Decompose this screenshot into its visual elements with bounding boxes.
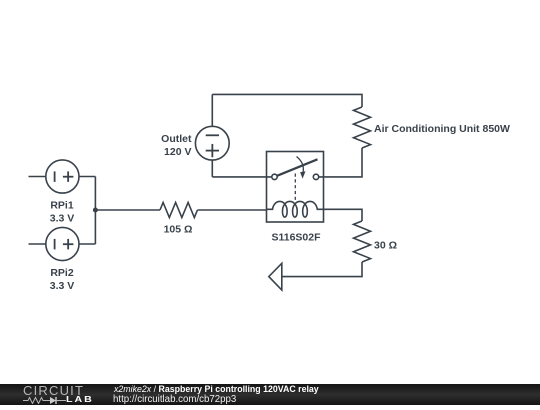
wire junction to resistor R105 (95, 209, 160, 211)
voltage source Outlet 120V (195, 94, 229, 176)
wire outlet bottom to relay switch left (212, 176, 271, 178)
antenna flag terminal (269, 263, 282, 290)
svg-text:Outlet: Outlet (161, 133, 192, 145)
wire 30 ohm resistor to antenna flag (282, 262, 362, 277)
svg-text:RPi2: RPi2 (50, 267, 74, 279)
CircuitLab logo LAB (66, 395, 94, 403)
relay U1 box (267, 152, 324, 223)
CircuitLab logo CIRCUIT (23, 384, 84, 397)
relay switch lever (277, 159, 318, 176)
wire AC resistor to relay switch right (319, 148, 362, 177)
svg-text:RPi1: RPi1 (50, 200, 74, 212)
credit line (114, 385, 319, 394)
CircuitLab logo resistor-diode glyph (23, 396, 67, 404)
node junction dot (93, 208, 98, 213)
url line (113, 395, 236, 404)
svg-text:Air Conditioning Unit 850W: Air Conditioning Unit 850W (374, 123, 510, 135)
svg-text:3.3 V: 3.3 V (50, 280, 75, 292)
wire relay coil right to 30 ohm resistor (324, 209, 362, 221)
svg-text:S116S02F: S116S02F (271, 232, 321, 244)
resistor Air Conditioning Unit 850W (354, 107, 371, 148)
resistor 30 ohm (354, 221, 371, 262)
relay switch left terminal (272, 174, 277, 179)
svg-text:120 V: 120 V (164, 146, 191, 158)
svg-text:3.3 V: 3.3 V (50, 213, 75, 225)
relay switch right terminal (313, 174, 318, 179)
wire resistor to relay coil (198, 209, 267, 211)
relay coil (267, 201, 325, 217)
wire joining RPi1 and RPi2 outputs (94, 177, 96, 245)
voltage source RPi2 (29, 227, 96, 260)
relay actuation dashed link (294, 174, 296, 201)
svg-text:30 Ω: 30 Ω (374, 240, 397, 252)
wire outlet top to AC resistor (212, 94, 362, 107)
resistor 105 ohm (160, 203, 197, 218)
footer bar (0, 384, 540, 405)
voltage source RPi1 (29, 160, 96, 193)
svg-text:105 Ω: 105 Ω (164, 224, 193, 236)
relay actuation arrow (297, 157, 306, 179)
